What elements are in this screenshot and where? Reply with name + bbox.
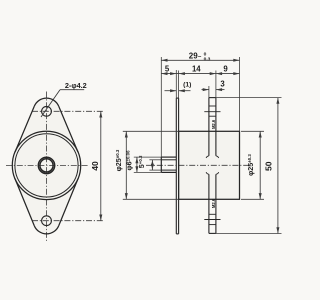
- svg-text:9: 9: [223, 64, 228, 73]
- svg-text:5: 5: [165, 65, 170, 74]
- svg-text:0: 0: [204, 51, 207, 57]
- svg-text:50: 50: [264, 161, 274, 171]
- svg-text:M2.6: M2.6: [211, 119, 216, 129]
- svg-text:14: 14: [192, 64, 201, 73]
- svg-text:M2.6: M2.6: [211, 198, 216, 208]
- svg-text:2-φ4.2: 2-φ4.2: [65, 81, 87, 90]
- svg-text:0.3: 0.3: [204, 57, 211, 63]
- svg-text:(1): (1): [183, 81, 191, 88]
- svg-text:40: 40: [90, 161, 100, 171]
- svg-text:3: 3: [220, 80, 225, 89]
